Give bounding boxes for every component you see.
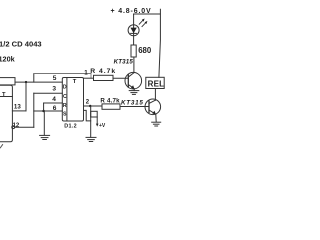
relay REL box <box>146 77 164 88</box>
svg-text:13: 13 <box>14 104 21 111</box>
resistor R2 body <box>102 104 120 109</box>
svg-text:680: 680 <box>138 46 152 55</box>
wire tick bottom left corner <box>0 145 2 148</box>
svg-text:S: S <box>63 111 67 117</box>
wire riser jog to feedback rail <box>33 74 35 83</box>
node junction dot R/S <box>42 110 45 113</box>
wire T1 collector to 680 <box>133 57 135 73</box>
LED HL1 <box>128 25 139 36</box>
wire pin C input <box>34 92 63 94</box>
op-amp D1.2 trigger box <box>62 78 83 122</box>
wire pin 2 to R2 <box>84 105 103 107</box>
svg-text:2: 2 <box>86 100 90 106</box>
inner divider line of left box <box>0 96 12 98</box>
svg-text:1/2 CD 4043: 1/2 CD 4043 <box>0 39 42 48</box>
wire supply rail vertical <box>159 9 161 77</box>
wire pin 12 output <box>15 126 34 128</box>
svg-text:REL: REL <box>148 79 165 88</box>
resistor 680 body <box>131 45 136 57</box>
LED emission arrows <box>139 19 147 27</box>
ground under T2 emitter <box>152 122 161 126</box>
ground under T1 emitter <box>129 89 139 95</box>
wire R2 to T2 base <box>120 106 149 108</box>
capacitor small box <box>91 111 98 117</box>
wire LED to supply rail <box>133 14 135 25</box>
node junction dot on D line <box>25 81 27 83</box>
ground under pin2 node <box>86 137 96 141</box>
node junction dot pin2 <box>89 105 91 107</box>
inverter bubble pin 12 <box>12 126 15 129</box>
wire vertical C-to-12 <box>33 93 35 127</box>
svg-text:R: R <box>63 103 67 109</box>
divider of pin column <box>66 78 68 122</box>
wire 120k to pin D <box>15 81 62 83</box>
svg-text:120k: 120k <box>0 55 16 64</box>
resistor 120k body <box>0 78 15 85</box>
svg-text:+V: +V <box>99 123 106 129</box>
wire supply rail horizontal <box>134 13 161 15</box>
ground under R/S node <box>40 135 50 139</box>
wire pin 1 to R1 <box>84 77 94 79</box>
svg-text:D: D <box>63 84 67 90</box>
wire T2 emitter stem <box>155 114 157 121</box>
wire REL to T2 collector <box>154 89 156 101</box>
transistor T2 <box>145 99 161 115</box>
wire pin R input <box>44 102 63 104</box>
svg-text:1: 1 <box>84 70 88 77</box>
wire riser pin13 to D line <box>25 82 27 111</box>
resistor R1 body <box>94 75 114 80</box>
wire 680 to LED <box>133 36 135 45</box>
wire R1 to T1 base <box>113 77 128 79</box>
svg-text:KT315: KT315 <box>121 100 144 107</box>
arrowhead +V <box>96 124 99 127</box>
svg-text:T: T <box>2 92 6 98</box>
wire stub from box bottom right <box>84 110 91 121</box>
wire feedback rail (faint) <box>34 74 91 79</box>
svg-text:T: T <box>73 79 77 85</box>
svg-text:R 4.7k: R 4.7k <box>90 68 116 75</box>
svg-text:5: 5 <box>53 75 57 82</box>
wire pin 13 output <box>12 110 26 112</box>
wire pin2 node to ground <box>90 106 92 137</box>
wire link R to S <box>43 103 45 111</box>
svg-text:KT315: KT315 <box>114 58 134 65</box>
op-amp D1.1 left box (cut off) <box>0 85 12 142</box>
wire +V arrow <box>96 117 98 125</box>
wire stem to ground <box>43 111 45 135</box>
wire pin S input <box>34 110 63 112</box>
svg-text:3: 3 <box>52 85 56 92</box>
svg-text:D1.2: D1.2 <box>64 123 77 129</box>
svg-text:C: C <box>63 94 67 100</box>
svg-text:4: 4 <box>52 96 56 103</box>
transistor T1 <box>125 72 142 89</box>
svg-text:R 4.7k: R 4.7k <box>100 97 120 104</box>
